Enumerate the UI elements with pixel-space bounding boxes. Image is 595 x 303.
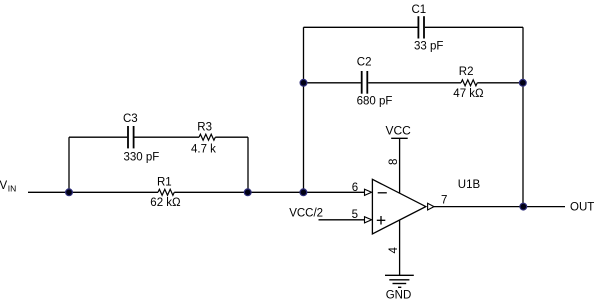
plus sign input	[377, 216, 386, 225]
pin 4 wire GND	[399, 220, 401, 275]
svg-text:33 pF: 33 pF	[414, 40, 443, 52]
svg-text:C1: C1	[412, 4, 427, 16]
capacitor C2	[362, 71, 368, 94]
wire C3 to R3	[134, 136, 199, 138]
op-amp U1B triangle	[372, 179, 425, 234]
wire C1 row left	[304, 26, 418, 28]
svg-text:330 pF: 330 pF	[124, 151, 160, 163]
ground symbol	[385, 275, 414, 287]
junction node E	[519, 79, 526, 86]
svg-text:R2: R2	[459, 66, 474, 78]
wire VIN to node A	[28, 191, 69, 193]
svg-text:OUT: OUT	[570, 201, 594, 213]
wire node B to node C	[248, 191, 304, 193]
svg-text:V: V	[0, 180, 8, 192]
wire C1 row right	[425, 26, 523, 28]
svg-text:R3: R3	[197, 122, 212, 134]
minus sign input	[378, 192, 387, 194]
svg-text:680 pF: 680 pF	[357, 95, 393, 107]
pin 6 arrow	[365, 189, 372, 195]
wire R2 to right vertical	[477, 82, 523, 84]
wire node C to pin 6	[304, 191, 366, 193]
svg-text:IN: IN	[8, 183, 16, 193]
op-amp output arrow	[428, 203, 434, 210]
wire output	[434, 206, 565, 208]
svg-text:R1: R1	[157, 176, 172, 188]
wire R3 to node B	[215, 136, 248, 138]
junction node D	[300, 79, 307, 86]
wire vertical node A up	[68, 137, 70, 192]
capacitor C3	[128, 126, 134, 148]
resistor R3	[199, 134, 215, 140]
capacitor C1	[418, 16, 424, 38]
wire vertical right feedback	[522, 27, 524, 206]
resistor R2	[461, 80, 477, 86]
svg-text:47 kΩ: 47 kΩ	[453, 88, 484, 100]
wire vertical feedback left	[303, 27, 305, 192]
junction node B	[244, 189, 251, 196]
svg-text:U1B: U1B	[458, 179, 481, 191]
svg-text:62 kΩ: 62 kΩ	[150, 197, 181, 209]
svg-text:8: 8	[388, 159, 400, 165]
svg-text:C3: C3	[123, 113, 138, 125]
wire node A to R1	[69, 191, 158, 193]
wire C3 branch left	[69, 136, 127, 138]
svg-text:C2: C2	[357, 57, 372, 69]
wire vertical node B up	[247, 137, 249, 192]
wire C2 row left	[304, 82, 361, 84]
svg-text:7: 7	[441, 195, 447, 207]
node VIN label	[0, 180, 16, 193]
wire VCC/2 to pin 5	[319, 219, 366, 221]
svg-text:VCC/2: VCC/2	[289, 208, 323, 220]
junction node A	[66, 189, 73, 196]
svg-text:GND: GND	[386, 290, 412, 302]
wire R1 to node B	[174, 191, 248, 193]
pin 5 arrow	[365, 217, 372, 223]
svg-text:5: 5	[352, 209, 358, 221]
svg-text:4.7 k: 4.7 k	[191, 144, 216, 156]
svg-text:6: 6	[352, 182, 358, 194]
svg-text:VCC: VCC	[386, 124, 412, 138]
pin 8 wire VCC	[399, 138, 401, 193]
svg-text:4: 4	[388, 247, 400, 254]
VCC power bar	[391, 137, 408, 139]
junction node C	[300, 189, 307, 196]
resistor R1	[158, 189, 174, 195]
junction node F output	[520, 203, 527, 210]
wire C2 to R2	[368, 82, 461, 84]
